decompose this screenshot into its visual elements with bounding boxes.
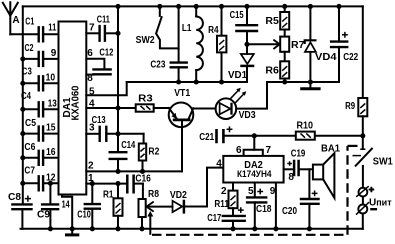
pin 7 — [86, 32, 98, 34]
svg-text:C21: C21 — [199, 132, 214, 143]
svg-text:C17: C17 — [207, 213, 221, 224]
svg-text:A: A — [12, 15, 19, 26]
capacitor C3 — [20, 67, 58, 92]
capacitor C12 — [92, 48, 113, 75]
svg-text:VD4: VD4 — [315, 52, 337, 63]
capacitor C2 — [20, 43, 58, 67]
svg-text:R8: R8 — [148, 189, 159, 200]
svg-text:КХА060: КХА060 — [71, 85, 82, 120]
wire VD2 to DA2 pin4 — [207, 168, 223, 207]
capacitor C20 — [282, 169, 320, 231]
capacitor C21 — [199, 126, 232, 143]
capacitor C19 — [284, 149, 313, 184]
svg-text:9: 9 — [51, 48, 57, 59]
svg-text:2: 2 — [221, 186, 227, 197]
potentiometer R8 — [139, 184, 173, 232]
pin 8 — [86, 74, 94, 76]
switch SW1 — [353, 136, 394, 168]
svg-text:C11: C11 — [97, 15, 110, 26]
svg-text:R4: R4 — [208, 25, 219, 36]
switch SW2 — [136, 4, 179, 49]
svg-text:SW1: SW1 — [373, 156, 393, 167]
speaker BA1 — [313, 144, 341, 198]
wire +V rail — [225, 133, 366, 138]
antenna A — [3, 2, 20, 34]
resistor R1 — [103, 181, 123, 231]
svg-text:C3: C3 — [22, 67, 32, 78]
svg-text:R1: R1 — [103, 190, 114, 201]
wire x118 vertical — [115, 4, 120, 152]
capacitor C7 — [20, 166, 58, 192]
svg-text:C6: C6 — [24, 142, 35, 153]
resistor R6 — [265, 52, 289, 85]
pin 6 — [86, 59, 104, 69]
svg-text:BA1: BA1 — [321, 144, 340, 155]
svg-text:C10: C10 — [77, 210, 91, 221]
transistor VT1 — [169, 88, 194, 171]
capacitor C23 — [150, 4, 188, 85]
IC DA1 KXA060 — [59, 22, 87, 195]
svg-text:1: 1 — [88, 173, 94, 184]
svg-text:4: 4 — [89, 98, 95, 109]
svg-text:VD2: VD2 — [170, 190, 187, 201]
pin 3 — [86, 133, 98, 135]
svg-text:C19: C19 — [291, 149, 306, 160]
capacitor C4 — [20, 91, 58, 118]
wire VD3 to R6 node — [236, 82, 267, 109]
battery terminal - — [356, 197, 377, 229]
svg-text:13: 13 — [48, 98, 57, 109]
svg-text:Uпит: Uпит — [369, 197, 392, 208]
wire rail y82 — [127, 81, 247, 83]
svg-text:R6: R6 — [265, 65, 279, 76]
svg-text:7: 7 — [89, 22, 95, 33]
pin 2 wire — [86, 161, 182, 174]
svg-text:10: 10 — [46, 72, 56, 83]
zener VD4 — [305, 4, 337, 85]
svg-text:6: 6 — [236, 145, 242, 156]
ground — [71, 229, 73, 234]
svg-text:R3: R3 — [138, 94, 153, 105]
svg-text:C4: C4 — [21, 91, 31, 102]
svg-text:2: 2 — [88, 161, 94, 172]
amplifier DA2 K174UN4 — [216, 136, 283, 183]
ground 2 — [309, 82, 311, 87]
svg-text:C13: C13 — [92, 115, 106, 126]
svg-text:C14: C14 — [121, 140, 135, 151]
wire left bus — [22, 6, 24, 204]
svg-text:9: 9 — [270, 186, 276, 197]
wiper wire to R7 — [247, 43, 280, 45]
svg-text:C22: C22 — [343, 52, 358, 63]
svg-text:4: 4 — [216, 159, 222, 170]
svg-text:VD1: VD1 — [228, 70, 247, 81]
battery terminal + — [356, 166, 374, 197]
mechanical link R8-SW1 (dashed) — [147, 146, 357, 235]
resistor R2 — [139, 134, 160, 172]
svg-text:16: 16 — [46, 147, 56, 158]
wire antenna to C1 — [10, 33, 37, 35]
svg-text:C23: C23 — [150, 60, 165, 71]
svg-text:R5: R5 — [265, 16, 279, 27]
wire R6 bottom rail — [267, 81, 339, 83]
svg-text:R10: R10 — [297, 120, 314, 131]
pin 14 — [62, 195, 75, 232]
svg-text:C9: C9 — [37, 209, 50, 220]
capacitor C11 — [97, 15, 118, 42]
svg-text:14: 14 — [62, 200, 70, 211]
svg-text:C2: C2 — [25, 43, 34, 54]
svg-text:11: 11 — [48, 22, 56, 33]
capacitor C6 — [20, 142, 58, 166]
svg-text:C1: C1 — [25, 17, 34, 28]
svg-text:C7: C7 — [24, 166, 35, 177]
capacitor C13 — [92, 115, 144, 142]
svg-text:7: 7 — [266, 145, 272, 156]
potentiometer R7 — [280, 30, 305, 52]
svg-text:C20: C20 — [282, 206, 297, 217]
svg-text:15: 15 — [46, 123, 56, 134]
resistor R11 — [214, 183, 237, 216]
resistor R3 — [136, 94, 154, 112]
pin 9 — [270, 183, 279, 232]
pin 5 — [86, 82, 126, 95]
svg-text:R9: R9 — [345, 101, 355, 112]
LED VD3 — [216, 88, 256, 121]
svg-text:6: 6 — [87, 48, 93, 59]
resistor R4 — [208, 4, 226, 85]
diode VD1 — [228, 44, 254, 82]
capacitor C22 — [330, 4, 359, 82]
capacitor C18 — [246, 183, 272, 232]
diode VD2 — [170, 190, 207, 214]
capacitor C1 — [25, 17, 58, 43]
capacitor C5 — [20, 118, 58, 142]
capacitor C16 — [127, 173, 151, 193]
svg-text:SW2: SW2 — [136, 35, 155, 46]
svg-text:5: 5 — [89, 86, 95, 97]
svg-text:C12: C12 — [99, 48, 113, 59]
svg-text:C8: C8 — [8, 192, 21, 203]
svg-text:R11: R11 — [214, 199, 229, 210]
svg-text:R7: R7 — [291, 40, 305, 51]
svg-text:12: 12 — [46, 172, 56, 183]
svg-text:C5: C5 — [25, 118, 36, 129]
svg-text:C15: C15 — [230, 10, 244, 21]
pin 1 wire — [86, 173, 126, 184]
capacitor C17 — [207, 207, 246, 231]
svg-text:VD3: VD3 — [239, 110, 256, 121]
svg-text:8: 8 — [87, 73, 93, 84]
resistor R5 — [265, 4, 289, 30]
wire top rail — [23, 5, 363, 7]
svg-text:L1: L1 — [182, 23, 192, 34]
capacitor C15 — [230, 4, 259, 47]
pin 4 — [86, 107, 135, 109]
resistor R10 — [296, 120, 315, 139]
resistor R9 — [345, 6, 367, 135]
capacitor C9 — [37, 181, 59, 232]
svg-text:5: 5 — [248, 186, 254, 197]
capacitor C8 (polarized) — [8, 192, 33, 229]
capacitor C14 — [109, 140, 136, 171]
inductor L1 — [182, 4, 203, 85]
svg-text:К174УН4: К174УН4 — [237, 169, 272, 179]
wire VT1 collector to VD3 — [193, 108, 215, 110]
capacitor C10 — [77, 181, 101, 231]
svg-text:C18: C18 — [256, 204, 272, 215]
svg-text:VT1: VT1 — [174, 88, 190, 99]
wire bottom rail — [21, 228, 363, 230]
svg-text:R2: R2 — [148, 147, 159, 158]
